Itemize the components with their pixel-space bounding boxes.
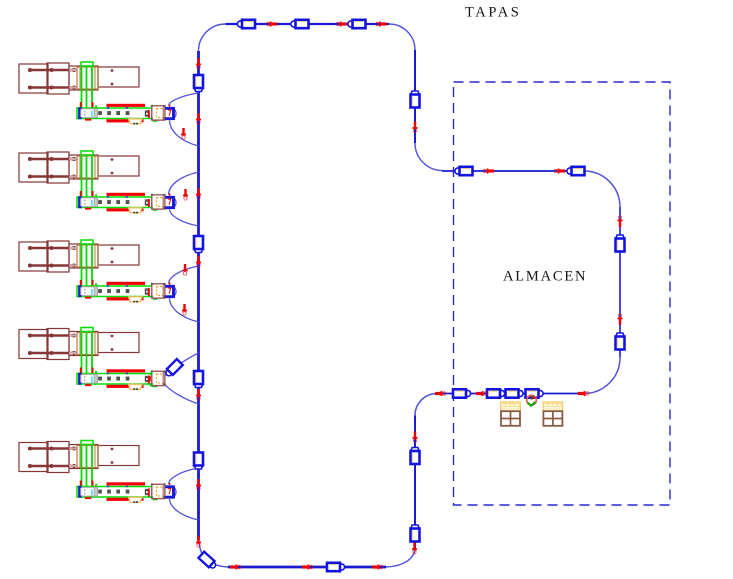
svg-text:ALMACEN: ALMACEN [503,269,587,285]
svg-text:TAPAS: TAPAS [465,5,521,21]
